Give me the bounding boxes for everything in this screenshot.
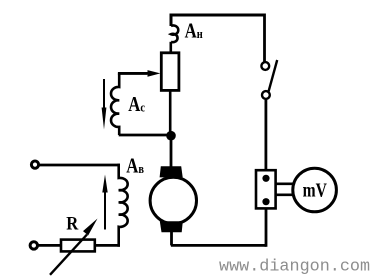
terminal block: [256, 170, 276, 208]
wire Ac bottom horizontal to junction: [119, 134, 170, 137]
wire terminal to rheostat R: [38, 244, 61, 247]
motor armature (circle): [150, 177, 196, 223]
millivoltmeter mV: [293, 168, 337, 212]
label Aв: [126, 155, 144, 178]
terminal upper-left: [31, 161, 38, 168]
label Aн: [185, 20, 203, 43]
potentiometer Rп (box): [161, 53, 179, 91]
switch S (upper contact): [261, 62, 269, 70]
inductor Ac: [111, 73, 119, 135]
wire top horizontal: [171, 14, 265, 17]
wire motor bottom down: [170, 232, 173, 245]
wire Ac top horizontal: [118, 72, 148, 75]
wire top right vertical to switch: [263, 14, 266, 63]
inductor Aн: [171, 26, 178, 43]
terminal block lower binding post: [262, 198, 269, 205]
wiper arrow into potentiometer: [120, 72, 147, 75]
wire coil Aн to potentiometer top: [170, 42, 173, 53]
label Ac: [128, 94, 145, 117]
connection leads to millivoltmeter: [276, 184, 294, 195]
terminal lower-left: [30, 242, 37, 249]
wire potentiometer bottom to junction: [169, 90, 172, 135]
rheostat R (box): [61, 240, 95, 252]
wire junction to motor top brush: [170, 135, 173, 168]
label R: [66, 213, 78, 234]
wire rheostat to coil Aв bottom: [95, 244, 120, 247]
svg-text:Aв: Aв: [126, 155, 144, 178]
wire terminal to coil Aв: [39, 164, 120, 167]
svg-text:Aн: Aн: [185, 20, 203, 43]
flux arrow up (Aв): [104, 191, 106, 230]
svg-text:mV: mV: [303, 178, 327, 200]
switch S (lower contact): [262, 91, 270, 99]
switch S (blade): [269, 60, 278, 91]
wire bottom horizontal to mV branch: [171, 244, 266, 247]
inductor Aв: [119, 164, 128, 247]
rheostat diagonal arrow: [50, 235, 87, 275]
terminal block upper binding post: [262, 175, 269, 182]
junction node: [166, 131, 176, 141]
flux arrow down (Ac): [103, 79, 105, 110]
svg-text:www.diangon.com: www.diangon.com: [219, 258, 370, 277]
motor top brush: [160, 166, 183, 177]
label mV: [303, 178, 327, 200]
wire switch to terminal block: [264, 99, 267, 171]
motor bottom brush: [160, 221, 183, 232]
svg-text:Ac: Ac: [128, 94, 145, 117]
wire left vertical from top to coil Aн: [170, 14, 173, 27]
svg-text:R: R: [66, 213, 78, 234]
wire up to terminal block bottom: [265, 207, 268, 247]
